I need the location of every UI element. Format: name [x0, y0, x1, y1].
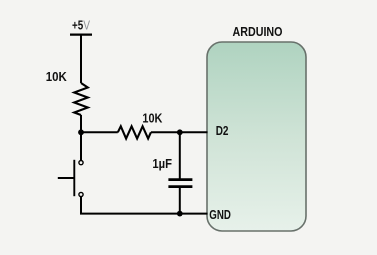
- node B junction (R2 / C1 / D2): [177, 129, 183, 135]
- svg-text:ARDUINO: ARDUINO: [233, 24, 283, 39]
- wire: switch S1 to ground rail: [81, 197, 180, 214]
- pushbutton S1 top contact: [79, 161, 83, 165]
- node A junction (R1 / R2 / switch): [78, 129, 84, 135]
- wire: node A down to switch S1: [80, 132, 82, 160]
- pushbutton S1 actuator shaft: [58, 177, 75, 179]
- svg-text:D2: D2: [216, 124, 229, 138]
- capacitor C1 bottom plate: [168, 185, 192, 188]
- svg-text:GND: GND: [209, 208, 231, 222]
- pushbutton S1 actuator bar: [73, 160, 75, 196]
- svg-text:10K: 10K: [142, 111, 162, 125]
- wire: R2 to node B and D2 pin: [151, 131, 208, 133]
- svg-text:1µF: 1µF: [152, 157, 172, 171]
- wire: node B to capacitor C1: [179, 132, 181, 179]
- capacitor C1 top plate: [168, 178, 192, 181]
- wire: C1 to ground rail: [179, 187, 181, 214]
- wire: ground node to GND pin: [180, 213, 208, 215]
- wire: node A to resistor R2: [81, 131, 118, 133]
- wire: R1 to node A: [80, 115, 82, 132]
- ground node junction: [177, 211, 183, 217]
- wire: +5V rail to resistor R1: [80, 35, 82, 83]
- Arduino U1 box: [207, 42, 306, 231]
- svg-text:+5V: +5V: [72, 19, 90, 33]
- resistor R2 10K (horizontal): [118, 126, 151, 138]
- pushbutton S1 bottom contact: [79, 192, 83, 196]
- svg-text:10K: 10K: [46, 70, 67, 84]
- resistor R1 10K (vertical): [74, 83, 88, 115]
- +5V power rail bar: [70, 33, 92, 35]
